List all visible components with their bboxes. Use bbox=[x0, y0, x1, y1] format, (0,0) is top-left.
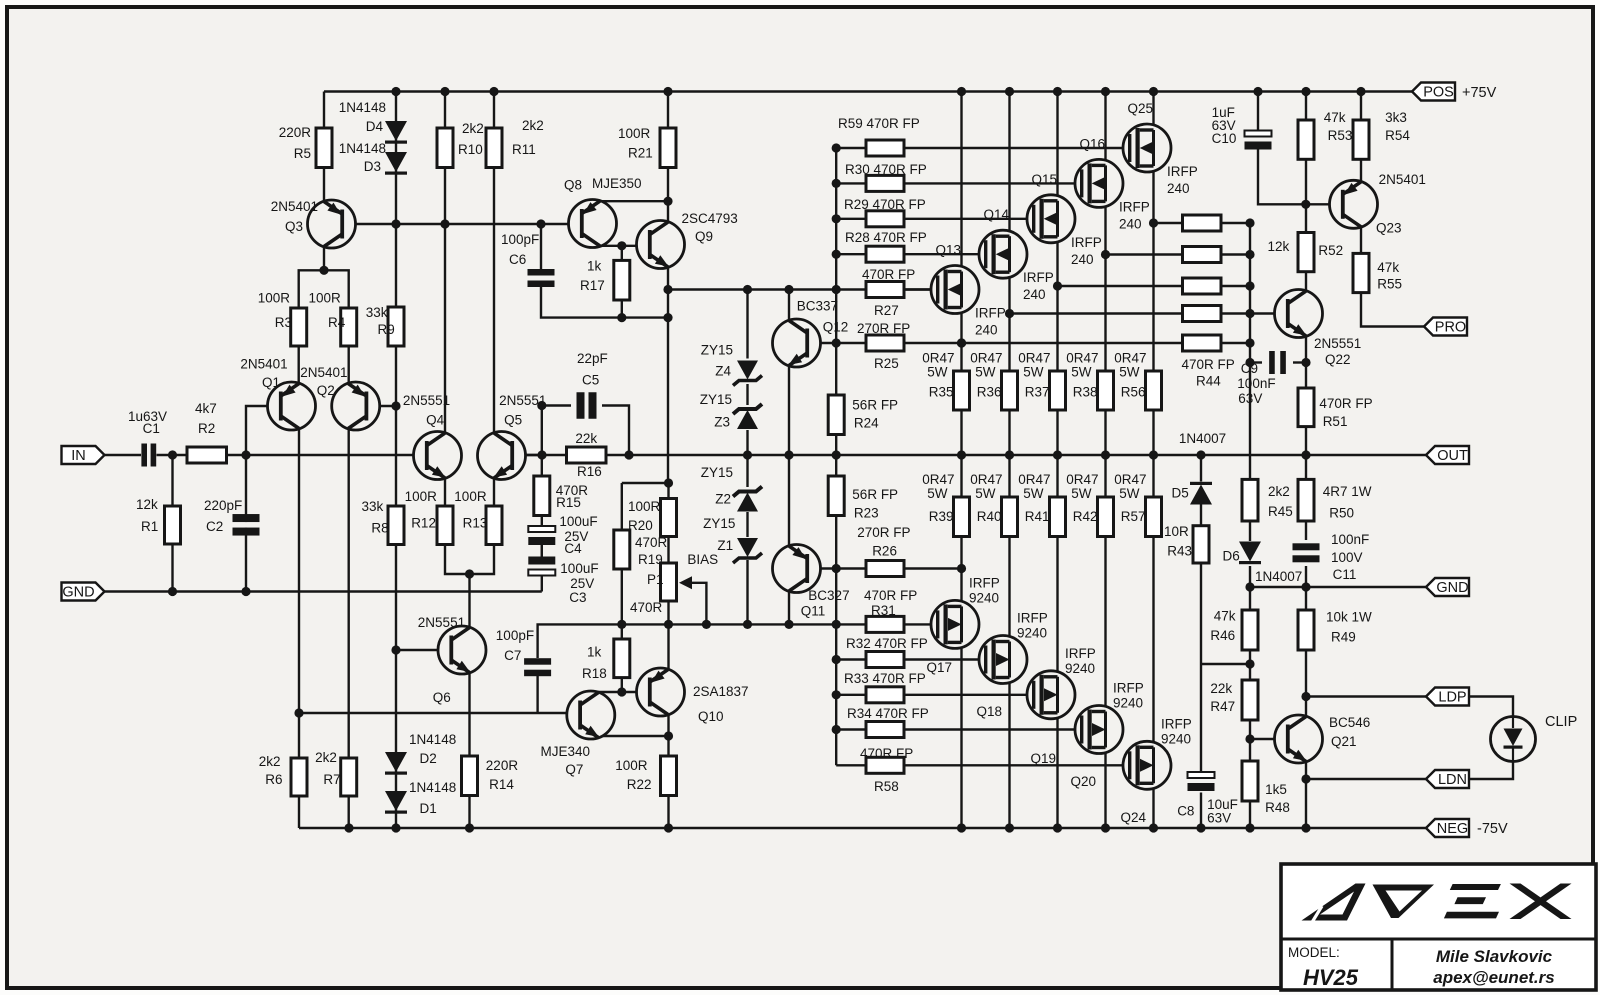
transistor Q23 2N5401 bbox=[1330, 180, 1378, 228]
junction POS rail x=1009.5 bbox=[1005, 87, 1014, 96]
svg-text:100R: 100R bbox=[628, 499, 661, 514]
wire R46 to R47 bbox=[1249, 650, 1251, 680]
svg-text:Q10: Q10 bbox=[698, 709, 724, 724]
resistor R28 470R FP bbox=[866, 246, 904, 262]
resistor R58 470R FP bbox=[866, 757, 904, 773]
wire node to C5 bbox=[542, 404, 571, 406]
svg-text:BIAS: BIAS bbox=[687, 552, 718, 567]
capacitor C2 220pF bbox=[233, 514, 260, 536]
junction GND R1 bbox=[168, 587, 177, 596]
svg-text:56R FP: 56R FP bbox=[852, 398, 898, 413]
junction OUT rail x=542 bbox=[537, 450, 546, 459]
svg-text:R13: R13 bbox=[463, 516, 488, 531]
svg-text:470R FP: 470R FP bbox=[1182, 357, 1235, 372]
wire node up to Q1 base bbox=[246, 406, 282, 455]
svg-text:470R FP: 470R FP bbox=[1319, 396, 1372, 411]
svg-text:R20: R20 bbox=[628, 518, 653, 533]
wire feedback chain R15 C4 C3 to GND bbox=[541, 455, 543, 592]
wire Q6 base lead bbox=[396, 649, 454, 651]
svg-text:R35: R35 bbox=[929, 385, 954, 400]
diode D1 1N4148 bbox=[385, 791, 407, 814]
svg-text:100R: 100R bbox=[615, 758, 648, 773]
svg-text:MJE350: MJE350 bbox=[592, 176, 642, 191]
junction R30 row bbox=[832, 179, 841, 188]
zener Z3 ZY15 bbox=[733, 404, 762, 429]
wire R53 to node to R52 bbox=[1305, 159, 1307, 232]
svg-text:PRO: PRO bbox=[1435, 320, 1466, 336]
transistor Q5 2N5551 bbox=[478, 432, 526, 480]
svg-text:MJE340: MJE340 bbox=[541, 744, 591, 759]
wire POS to C10 bbox=[1257, 92, 1259, 131]
wire P1 bottom to bias rail bbox=[667, 601, 669, 624]
svg-text:2N5551: 2N5551 bbox=[1314, 336, 1361, 351]
svg-text:R16: R16 bbox=[577, 464, 602, 479]
svg-text:Q12: Q12 bbox=[823, 319, 849, 334]
resistor R55 47k bbox=[1353, 253, 1369, 292]
junction NEG rail x=668.5 bbox=[664, 823, 673, 832]
svg-text:ZY15: ZY15 bbox=[700, 392, 732, 407]
wire source to 0R47 col 0 bbox=[960, 308, 962, 372]
diode D4 1N4148 bbox=[385, 121, 407, 144]
svg-text:GND: GND bbox=[62, 585, 94, 601]
junction bias rail x=747.5 bbox=[743, 620, 752, 629]
svg-text:Q1: Q1 bbox=[262, 375, 280, 390]
junction C9 right / Q22 emitter bbox=[1301, 358, 1310, 367]
wire bias rail to R18 bbox=[621, 624, 623, 639]
svg-text:2N5401: 2N5401 bbox=[240, 357, 287, 372]
wire bias rail (C7 top to R31) bbox=[538, 624, 866, 658]
svg-text:33k: 33k bbox=[362, 499, 384, 514]
tag OUT bbox=[1426, 446, 1469, 464]
svg-text:R56: R56 bbox=[1121, 385, 1146, 400]
wire OUT to 0R47 lower col 1 bbox=[1008, 455, 1010, 497]
junction NEG rail x=396 bbox=[391, 823, 400, 832]
svg-text:1N4007: 1N4007 bbox=[1255, 569, 1302, 584]
resistor R49 10k 1W bbox=[1298, 610, 1314, 650]
svg-text:Q3: Q3 bbox=[285, 219, 303, 234]
wire R2 to Q4 base bbox=[227, 454, 431, 456]
svg-text:C11: C11 bbox=[1333, 567, 1357, 582]
wire R17 bottom to node bbox=[621, 300, 623, 318]
resistor R52 12k bbox=[1298, 233, 1314, 272]
junction Q12 base / R25 / R24 bbox=[832, 338, 841, 347]
svg-text:240: 240 bbox=[1023, 287, 1046, 302]
svg-text:R5: R5 bbox=[294, 146, 311, 161]
svg-text:D1: D1 bbox=[420, 801, 437, 816]
wire Q11 collector to bias rail bbox=[788, 591, 790, 624]
resistor R18 1k bbox=[614, 639, 630, 678]
svg-text:0R47: 0R47 bbox=[1066, 472, 1098, 487]
resistor R1 12k bbox=[165, 506, 181, 544]
diode D5 1N4007 bbox=[1190, 482, 1212, 505]
resistor R44 470R FP bbox=[1183, 335, 1222, 351]
junction bias rail x=621.8 bbox=[617, 620, 626, 629]
svg-text:1N4007: 1N4007 bbox=[1179, 431, 1226, 446]
junction OUT rail x=172.5 bbox=[168, 450, 177, 459]
svg-text:1N4148: 1N4148 bbox=[339, 141, 386, 156]
junction R10 / base line bbox=[440, 219, 449, 228]
wire 0R47 to OUT col 0 bbox=[960, 410, 962, 455]
wire Q11 base to bus bbox=[807, 567, 837, 569]
svg-text:2N5551: 2N5551 bbox=[403, 393, 450, 408]
junction OUT rail x=246 bbox=[241, 450, 250, 459]
led CLIP bbox=[1491, 717, 1536, 762]
resistor R-row3 470R FP bbox=[1183, 278, 1222, 294]
svg-text:0R47: 0R47 bbox=[1018, 472, 1050, 487]
junction OUT rail x=961.5 bbox=[957, 450, 966, 459]
svg-text:Q2: Q2 bbox=[317, 383, 335, 398]
wire node down through C2 to GND bbox=[245, 455, 247, 592]
mosfet Q25 IRFP240 bbox=[1123, 124, 1171, 172]
wire drain to POS col 2 bbox=[1056, 92, 1058, 201]
svg-text:R9: R9 bbox=[378, 322, 395, 337]
resistor R2 4k7 bbox=[187, 447, 227, 463]
wire Q23 collector to R55 bbox=[1360, 227, 1362, 254]
junction R25-R44 row / Q13 col bbox=[957, 338, 966, 347]
wire gate row lower 1 bbox=[904, 658, 984, 660]
mosfet Q16 IRFP240 bbox=[1075, 159, 1123, 207]
wire bus to row 659.5 bbox=[836, 658, 866, 660]
svg-text:R37: R37 bbox=[1025, 385, 1050, 400]
wire Q12 emitter - OUT - Q11 emitter bbox=[788, 365, 790, 546]
junction NEG rail x=1105.5 bbox=[1101, 823, 1110, 832]
svg-text:R15: R15 bbox=[556, 495, 581, 510]
wire GND to R49 bbox=[1305, 587, 1307, 610]
wire right array row 4 left bbox=[962, 342, 1183, 344]
wire POS to R53 bbox=[1305, 92, 1307, 121]
logo APEX letter P bbox=[1373, 885, 1435, 919]
junction OUT rail x=1153.5 bbox=[1149, 450, 1158, 459]
resistor R15 470R bbox=[534, 476, 550, 516]
svg-text:5W: 5W bbox=[1071, 365, 1092, 380]
resistor R10 2k2 bbox=[437, 128, 453, 168]
resistor R19 470R bbox=[661, 499, 677, 537]
svg-text:0R47: 0R47 bbox=[1018, 351, 1050, 366]
svg-text:5W: 5W bbox=[1023, 486, 1044, 501]
svg-text:100R: 100R bbox=[309, 291, 342, 306]
resistor R47 22k bbox=[1242, 680, 1258, 720]
svg-text:47k: 47k bbox=[1377, 260, 1399, 275]
svg-text:IRFP: IRFP bbox=[1071, 235, 1102, 250]
tag POS bbox=[1412, 83, 1455, 101]
resistor R17 1k bbox=[614, 260, 630, 300]
svg-text:2k2: 2k2 bbox=[315, 750, 337, 765]
wire branch down to R20 bbox=[621, 483, 623, 530]
tag IN bbox=[62, 446, 105, 464]
wire gate row lower 3 bbox=[904, 728, 1080, 730]
svg-text:R2: R2 bbox=[198, 421, 215, 436]
svg-text:2SA1837: 2SA1837 bbox=[693, 684, 749, 699]
junction POS rail x=445 bbox=[440, 87, 449, 96]
svg-text:R43: R43 bbox=[1167, 544, 1192, 559]
capacitor C3 100uF 25V bbox=[528, 557, 555, 576]
resistor R14 220R bbox=[462, 756, 478, 796]
wire C9 to Q22 emitter col bbox=[1293, 361, 1306, 363]
svg-text:47k: 47k bbox=[1214, 609, 1236, 624]
svg-text:R42: R42 bbox=[1073, 509, 1098, 524]
wire bus to row 218.8 bbox=[836, 218, 866, 220]
wire Q10 emitter up to bias rail bbox=[667, 624, 669, 669]
svg-text:2k2: 2k2 bbox=[1268, 484, 1290, 499]
wire bus to row 254.2 bbox=[836, 253, 866, 255]
svg-text:Z3: Z3 bbox=[714, 414, 730, 429]
junction R53 / R52 / Q23 base bbox=[1301, 200, 1310, 209]
wire 0R47 to source col 0 bbox=[960, 537, 962, 607]
resistor R23 56R FP bbox=[828, 476, 844, 516]
svg-text:220R: 220R bbox=[279, 125, 312, 140]
wire C6 bottom to Q9 emitter line bbox=[541, 287, 668, 318]
svg-text:IRFP: IRFP bbox=[969, 575, 1000, 590]
svg-text:Z1: Z1 bbox=[717, 538, 733, 553]
svg-text:BC327: BC327 bbox=[808, 588, 849, 603]
wire D6 to GND to R46 bbox=[1249, 566, 1251, 610]
diode D2 1N4148 bbox=[385, 752, 407, 775]
resistor R54 3k3 bbox=[1353, 120, 1369, 159]
junction NEG rail x=1201 bbox=[1196, 823, 1205, 832]
svg-text:2N5401: 2N5401 bbox=[1379, 172, 1426, 187]
tag LDP bbox=[1426, 688, 1469, 706]
svg-text:240: 240 bbox=[1119, 216, 1142, 231]
wire source to 0R47 col 2 bbox=[1056, 237, 1058, 371]
svg-text:apex@eunet.rs: apex@eunet.rs bbox=[1433, 968, 1554, 987]
wire right array row 1 left bbox=[1106, 253, 1183, 255]
logo APEX letter A bbox=[1302, 884, 1366, 922]
svg-text:12k: 12k bbox=[136, 497, 158, 512]
svg-text:Q13: Q13 bbox=[935, 243, 961, 258]
svg-text:CLIP: CLIP bbox=[1545, 714, 1577, 730]
svg-text:2N5401: 2N5401 bbox=[300, 365, 347, 380]
svg-text:R30 470R FP: R30 470R FP bbox=[845, 162, 927, 177]
resistor R16 22k bbox=[567, 447, 607, 463]
svg-text:IRFP: IRFP bbox=[1161, 716, 1192, 731]
svg-text:2SC4793: 2SC4793 bbox=[682, 211, 738, 226]
wire OUT to 0R47 lower col 3 bbox=[1104, 455, 1106, 497]
junction Q1 collector / Q7 base line bbox=[294, 708, 303, 717]
svg-text:C4: C4 bbox=[564, 541, 582, 556]
svg-text:BC337: BC337 bbox=[797, 299, 838, 314]
svg-text:4R7 1W: 4R7 1W bbox=[1323, 484, 1372, 499]
svg-text:240: 240 bbox=[1071, 252, 1094, 267]
wire R4 to Q2 emitter bbox=[348, 346, 350, 384]
wire CLIP led to LDN bbox=[1468, 762, 1513, 780]
wire bus to row 765.3 bbox=[836, 764, 866, 766]
svg-text:100R: 100R bbox=[405, 489, 438, 504]
svg-text:R31: R31 bbox=[871, 603, 896, 618]
junction bias rail x=668.5 bbox=[664, 620, 673, 629]
capacitor C11 100nF 100V bbox=[1293, 543, 1320, 562]
mosfet Q15 IRFP240 bbox=[1027, 195, 1075, 243]
junction NEG rail x=349 bbox=[344, 823, 353, 832]
junction POS rail x=396 bbox=[391, 87, 400, 96]
wire bus to row 729.5 bbox=[836, 728, 866, 730]
tag GND right bbox=[1426, 578, 1469, 596]
svg-text:240: 240 bbox=[975, 323, 998, 338]
svg-text:IRFP: IRFP bbox=[1167, 164, 1198, 179]
junction C9 left bbox=[1245, 358, 1254, 367]
junction POS rail x=494 bbox=[489, 87, 498, 96]
resistor R21 100R bbox=[660, 128, 676, 168]
node noop bbox=[364, 404, 366, 406]
junction Q21 emitter / LDN bbox=[1301, 774, 1310, 783]
potentiometer P1 wiper arrow bbox=[679, 576, 692, 589]
wire right array row 3 left bbox=[1010, 312, 1183, 314]
svg-text:Q24: Q24 bbox=[1120, 810, 1146, 825]
svg-text:R17: R17 bbox=[580, 278, 605, 293]
wire drain to POS col 3 bbox=[1104, 92, 1106, 166]
svg-text:LDP: LDP bbox=[1438, 690, 1466, 706]
svg-text:100V: 100V bbox=[1331, 550, 1363, 565]
svg-text:R7: R7 bbox=[323, 772, 340, 787]
svg-text:Q25: Q25 bbox=[1127, 101, 1153, 116]
wire drain to NEG col 1 bbox=[1008, 678, 1010, 829]
svg-text:0R47: 0R47 bbox=[970, 351, 1002, 366]
svg-text:R32 470R FP: R32 470R FP bbox=[846, 636, 928, 651]
junction R17 bottom bbox=[617, 313, 626, 322]
svg-text:0R47: 0R47 bbox=[922, 472, 954, 487]
wire Q5 emitter to R13 bbox=[493, 478, 495, 506]
svg-text:100R: 100R bbox=[454, 489, 487, 504]
svg-text:R52: R52 bbox=[1318, 243, 1343, 258]
svg-text:47k: 47k bbox=[1324, 110, 1346, 125]
wire 0R47 to source col 4 bbox=[1152, 537, 1154, 748]
junction Q2 base bbox=[391, 401, 400, 410]
junction OUT rail x=1057.5 bbox=[1053, 450, 1062, 459]
mosfet Q20 IRFP9240 bbox=[1075, 706, 1123, 754]
wire Q9 emitter down (crosses OUT) bbox=[667, 267, 669, 483]
wire LDP to CLIP led bbox=[1468, 697, 1513, 717]
resistor R-row2 470R FP bbox=[1183, 247, 1222, 263]
svg-text:R36: R36 bbox=[977, 385, 1002, 400]
svg-text:R55: R55 bbox=[1377, 277, 1402, 292]
junction Q9 emitter row bbox=[663, 285, 672, 294]
junction Q11 base / R26 / R23 bbox=[832, 564, 841, 573]
svg-text:R14: R14 bbox=[489, 777, 514, 792]
wire Z1 to bias rail bbox=[746, 560, 748, 624]
wire C10 to Q23 base bbox=[1258, 149, 1344, 204]
transistor Q11 BC327 bbox=[773, 545, 821, 593]
wire R52 to Q22 collector bbox=[1305, 272, 1307, 292]
wire node to R1 top bbox=[171, 455, 173, 506]
svg-text:100R: 100R bbox=[618, 126, 651, 141]
resistor R57 0R47 5W bbox=[1146, 497, 1162, 537]
wire OUT to R50 bbox=[1305, 455, 1307, 479]
svg-text:5W: 5W bbox=[1071, 486, 1092, 501]
svg-text:2k2: 2k2 bbox=[462, 121, 484, 136]
svg-text:1k: 1k bbox=[587, 645, 602, 660]
resistor R50 4R7 1W bbox=[1298, 479, 1314, 521]
wire D5 to R43 bbox=[1200, 504, 1202, 526]
wire Q6 emitter to R14 bbox=[468, 672, 470, 756]
svg-text:D5: D5 bbox=[1172, 486, 1189, 501]
svg-text:Q22: Q22 bbox=[1325, 352, 1351, 367]
svg-text:0R47: 0R47 bbox=[1066, 351, 1098, 366]
svg-text:5W: 5W bbox=[975, 365, 996, 380]
svg-text:9240: 9240 bbox=[1161, 731, 1191, 746]
junction NEG rail x=1057.5 bbox=[1053, 823, 1062, 832]
junction GND C11 col bbox=[1301, 582, 1310, 591]
svg-text:2k2: 2k2 bbox=[522, 118, 544, 133]
resistor R-row4 470R FP bbox=[1183, 306, 1222, 322]
capacitor C7 100pF bbox=[524, 658, 551, 676]
svg-text:Q20: Q20 bbox=[1070, 774, 1096, 789]
svg-text:R12: R12 bbox=[411, 516, 436, 531]
resistor R48 1k5 bbox=[1242, 761, 1258, 801]
junction Q3 base / bias column bbox=[391, 219, 400, 228]
resistor R43 10R bbox=[1193, 526, 1209, 563]
svg-text:Q6: Q6 bbox=[433, 690, 451, 705]
wire to LDP tag bbox=[1306, 695, 1426, 697]
svg-text:63V: 63V bbox=[1207, 811, 1231, 826]
wire diode-bias column x396 bbox=[395, 92, 397, 829]
wire right array row 0 right bbox=[1221, 222, 1250, 224]
wire POS through R21 to Q9 collector bbox=[667, 92, 669, 223]
svg-text:5W: 5W bbox=[1023, 365, 1044, 380]
junction R27 row / bus bbox=[832, 285, 841, 294]
resistor R34 470R FP bbox=[866, 722, 904, 738]
transistor Q22 2N5551 bbox=[1275, 290, 1323, 338]
wire R31 to Q17 gate bbox=[904, 623, 936, 625]
junction POS rail x=1258 bbox=[1253, 87, 1262, 96]
wire 0R47 to OUT col 3 bbox=[1104, 410, 1106, 455]
junction POS rail x=1361 bbox=[1356, 87, 1365, 96]
transistor Q8 MJE350 bbox=[569, 200, 617, 248]
svg-text:5W: 5W bbox=[927, 486, 948, 501]
wire Z3 to OUT rail bbox=[746, 430, 748, 455]
wire right array row 1 right bbox=[1221, 253, 1250, 255]
wire R7 bottom to NEG bbox=[348, 796, 350, 828]
junction Z4 top bbox=[743, 285, 752, 294]
junction Q6 base bbox=[391, 645, 400, 654]
svg-text:Q9: Q9 bbox=[695, 229, 713, 244]
diode D6 1N4007 bbox=[1239, 542, 1261, 565]
resistor R24 56R FP bbox=[828, 395, 844, 435]
wire C8 to NEG bbox=[1200, 793, 1202, 829]
wire gate row lower 4 bbox=[904, 764, 1128, 766]
svg-text:22pF: 22pF bbox=[577, 351, 608, 366]
junction Q9 base / R17 bbox=[617, 241, 626, 250]
svg-text:9240: 9240 bbox=[969, 590, 999, 605]
resistor R31 470R FP bbox=[866, 616, 904, 632]
svg-text:C2: C2 bbox=[206, 519, 223, 534]
tag NEG bbox=[1426, 819, 1469, 837]
wire 0R47 to OUT col 1 bbox=[1008, 410, 1010, 455]
svg-text:NEG: NEG bbox=[1437, 821, 1468, 837]
wire R50 to C11 bbox=[1305, 521, 1307, 540]
wire bus to row 568.5 bbox=[836, 567, 866, 569]
svg-text:R28 470R FP: R28 470R FP bbox=[845, 230, 927, 245]
wire 0R47 to source col 1 bbox=[1008, 537, 1010, 642]
svg-text:270R FP: 270R FP bbox=[857, 525, 910, 540]
resistor R13 100R bbox=[486, 506, 502, 545]
wire tail node to Q6 collector bbox=[468, 574, 470, 628]
resistor R32 470R FP bbox=[866, 652, 904, 668]
svg-text:12k: 12k bbox=[1268, 239, 1290, 254]
junction Q7 emitter / Q10 collector bbox=[664, 731, 673, 740]
junction Q21 base / R47 R48 bbox=[1245, 734, 1254, 743]
svg-text:R3: R3 bbox=[275, 315, 292, 330]
junction POS rail x=961.5 bbox=[957, 87, 966, 96]
junction right bus y=286 bbox=[1245, 281, 1254, 290]
wire R54 to Q23 emitter bbox=[1360, 159, 1362, 182]
svg-text:LDN: LDN bbox=[1438, 772, 1467, 788]
svg-text:POS: POS bbox=[1423, 85, 1454, 101]
svg-text:R38: R38 bbox=[1073, 385, 1098, 400]
wire Q10 collector to R22 bbox=[667, 715, 669, 757]
wire 0R47 to OUT col 2 bbox=[1056, 410, 1058, 455]
logo APEX letter E bbox=[1444, 884, 1501, 918]
resistor R38 0R47 5W bbox=[1098, 371, 1114, 410]
wire source to 0R47 col 1 bbox=[1008, 272, 1010, 371]
